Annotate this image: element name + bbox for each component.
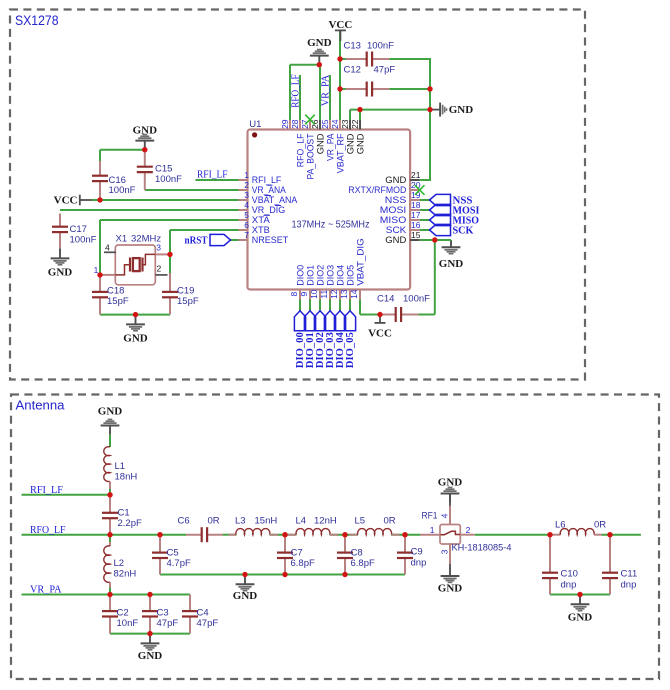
svg-text:12nH: 12nH — [314, 516, 337, 527]
svg-text:100nF: 100nF — [70, 234, 97, 245]
svg-text:11: 11 — [319, 290, 329, 299]
svg-text:25: 25 — [320, 119, 330, 129]
svg-text:2: 2 — [244, 180, 249, 190]
svg-text:Antenna: Antenna — [16, 398, 66, 413]
svg-text:L3: L3 — [235, 516, 246, 527]
svg-text:VR_PA: VR_PA — [320, 74, 331, 106]
svg-text:4.7pF: 4.7pF — [167, 558, 191, 569]
svg-text:12: 12 — [329, 289, 339, 299]
svg-text:C9: C9 — [411, 547, 423, 558]
svg-text:47pF: 47pF — [374, 65, 396, 76]
svg-text:dnp: dnp — [411, 558, 427, 569]
svg-text:C14: C14 — [377, 294, 394, 305]
svg-text:0R: 0R — [208, 516, 220, 527]
svg-text:X1: X1 — [116, 234, 128, 245]
svg-text:8: 8 — [289, 292, 299, 297]
svg-text:GND: GND — [133, 124, 158, 136]
svg-text:GND: GND — [138, 650, 163, 662]
svg-text:C6: C6 — [178, 516, 190, 527]
svg-text:L2: L2 — [114, 558, 125, 569]
svg-text:C18: C18 — [107, 286, 124, 297]
svg-text:L4: L4 — [296, 516, 307, 527]
svg-text:23: 23 — [340, 119, 350, 129]
svg-text:15nH: 15nH — [255, 516, 278, 527]
svg-text:C12: C12 — [344, 65, 361, 76]
svg-text:22: 22 — [350, 119, 360, 129]
svg-text:15: 15 — [411, 230, 421, 240]
svg-text:4: 4 — [105, 242, 110, 252]
svg-text:VCC: VCC — [328, 19, 352, 31]
svg-text:GND: GND — [438, 582, 463, 594]
svg-text:C19: C19 — [177, 286, 194, 297]
svg-text:GND: GND — [568, 611, 593, 623]
svg-text:29: 29 — [280, 119, 290, 129]
svg-text:VBAT_DIG: VBAT_DIG — [355, 238, 366, 286]
svg-text:18: 18 — [411, 200, 421, 210]
svg-text:24: 24 — [330, 119, 340, 129]
svg-text:C8: C8 — [351, 548, 363, 559]
svg-text:47pF: 47pF — [157, 618, 179, 629]
svg-text:15pF: 15pF — [107, 296, 129, 307]
svg-text:VCC: VCC — [368, 328, 392, 340]
svg-text:DIO_05: DIO_05 — [345, 332, 356, 368]
svg-text:C16: C16 — [109, 175, 126, 186]
svg-text:GND: GND — [355, 133, 366, 154]
svg-text:GND: GND — [385, 235, 406, 246]
svg-text:10: 10 — [309, 289, 319, 299]
svg-text:GND: GND — [123, 333, 148, 345]
svg-text:SCK: SCK — [453, 225, 474, 236]
svg-text:28: 28 — [290, 119, 300, 129]
svg-text:16: 16 — [411, 220, 421, 230]
svg-text:82nH: 82nH — [114, 569, 137, 580]
svg-text:14: 14 — [349, 289, 359, 299]
svg-text:0R: 0R — [594, 519, 606, 530]
svg-text:VR_PA: VR_PA — [30, 585, 62, 596]
svg-text:L1: L1 — [115, 461, 126, 472]
svg-text:L5: L5 — [355, 516, 366, 527]
svg-text:2: 2 — [466, 525, 471, 535]
svg-text:U1: U1 — [249, 119, 261, 130]
svg-text:dnp: dnp — [561, 579, 577, 590]
svg-text:100nF: 100nF — [155, 174, 182, 185]
svg-text:GND: GND — [438, 477, 463, 489]
svg-text:KH-1818085-4: KH-1818085-4 — [452, 543, 512, 554]
svg-text:21: 21 — [411, 170, 421, 180]
svg-text:C7: C7 — [291, 548, 303, 559]
svg-text:C5: C5 — [167, 548, 179, 559]
svg-text:100nF: 100nF — [367, 41, 394, 52]
svg-text:5: 5 — [244, 210, 249, 220]
svg-text:19: 19 — [411, 190, 421, 200]
svg-text:RF1: RF1 — [422, 510, 438, 521]
svg-text:32MHz: 32MHz — [131, 234, 161, 245]
svg-text:C2: C2 — [117, 607, 129, 618]
svg-text:GND: GND — [439, 258, 464, 270]
svg-text:13: 13 — [339, 289, 349, 299]
svg-text:C10: C10 — [561, 569, 578, 580]
svg-text:C11: C11 — [621, 569, 638, 580]
svg-text:137MHz ~ 525MHz: 137MHz ~ 525MHz — [292, 219, 370, 230]
svg-text:9: 9 — [299, 292, 309, 297]
svg-text:GND: GND — [233, 590, 258, 602]
svg-text:1: 1 — [430, 525, 435, 535]
svg-text:RFO_LF: RFO_LF — [30, 525, 66, 536]
svg-text:RFI_LF: RFI_LF — [30, 485, 63, 496]
svg-text:10nF: 10nF — [117, 618, 139, 629]
svg-text:RFO_LF: RFO_LF — [290, 74, 301, 108]
svg-text:C4: C4 — [197, 607, 209, 618]
svg-text:nRST: nRST — [185, 235, 208, 246]
svg-text:GND: GND — [48, 267, 73, 279]
svg-text:3: 3 — [440, 549, 450, 554]
svg-text:SX1278: SX1278 — [15, 13, 59, 28]
svg-text:0R: 0R — [384, 516, 396, 527]
svg-text:4: 4 — [244, 200, 249, 210]
svg-text:100nF: 100nF — [109, 185, 136, 196]
svg-text:3: 3 — [244, 190, 249, 200]
svg-text:2.2pF: 2.2pF — [118, 518, 142, 529]
svg-text:NRESET: NRESET — [252, 235, 289, 246]
svg-text:7: 7 — [244, 230, 249, 240]
svg-text:L6: L6 — [555, 519, 566, 530]
svg-text:15pF: 15pF — [177, 296, 199, 307]
svg-text:2: 2 — [157, 263, 162, 273]
svg-text:18nH: 18nH — [115, 472, 138, 483]
svg-text:6.8pF: 6.8pF — [291, 558, 315, 569]
svg-text:C15: C15 — [155, 164, 172, 175]
svg-text:C13: C13 — [344, 41, 361, 52]
svg-text:GND: GND — [307, 37, 332, 49]
svg-text:C3: C3 — [157, 607, 169, 618]
svg-text:17: 17 — [411, 210, 421, 220]
svg-text:4: 4 — [440, 513, 450, 518]
svg-text:GND: GND — [449, 104, 474, 116]
svg-text:6: 6 — [244, 220, 249, 230]
svg-text:100nF: 100nF — [403, 294, 430, 305]
svg-text:VCC: VCC — [54, 195, 78, 207]
svg-text:1: 1 — [244, 170, 249, 180]
svg-text:RFI_LF: RFI_LF — [197, 169, 228, 180]
svg-text:C1: C1 — [118, 508, 130, 519]
svg-text:6.8pF: 6.8pF — [351, 558, 375, 569]
svg-text:47pF: 47pF — [197, 618, 219, 629]
svg-text:GND: GND — [98, 406, 123, 418]
svg-text:dnp: dnp — [621, 579, 637, 590]
